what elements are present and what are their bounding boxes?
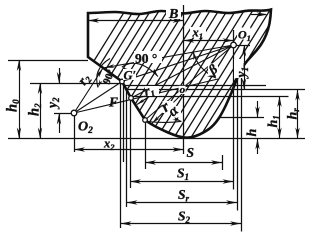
svg-text:90 °: 90 ° [135, 51, 157, 66]
svg-text:S: S [187, 145, 195, 160]
svg-text:h: h [245, 129, 260, 137]
svg-text:F: F [108, 95, 118, 110]
svg-text:B: B [168, 7, 178, 22]
svg-text:o: o [180, 84, 186, 96]
svg-text:G′: G′ [124, 69, 137, 83]
